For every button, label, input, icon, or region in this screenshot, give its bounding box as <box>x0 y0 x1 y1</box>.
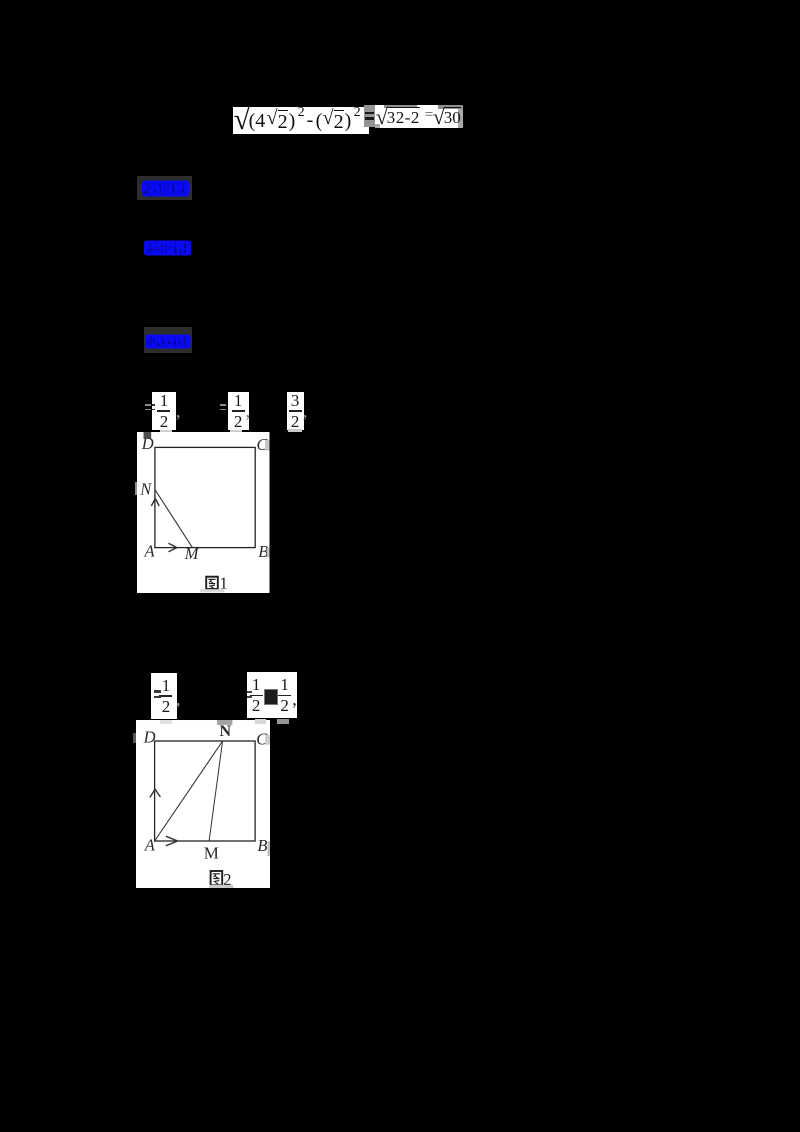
comma after second fraction <box>245 401 250 423</box>
dark comma at right edge <box>292 689 297 711</box>
up arrowhead on side AD <box>151 498 159 506</box>
grey remnant under row2 patch1 on panel <box>160 720 172 725</box>
svg-text:N: N <box>139 479 152 498</box>
grey remnant under row1 patch1 <box>160 430 172 433</box>
label 1 grey backing <box>137 176 193 201</box>
formula patch 1: sqrt((4*sqrt2)^2-(sqrt2)^2) <box>233 107 369 134</box>
svg-text:M: M <box>204 843 219 862</box>
fraction 1/2 (row2 second) <box>248 672 265 718</box>
segment A-N <box>154 741 222 841</box>
grey strip below caption <box>209 885 233 888</box>
caption glyph box (tu) <box>206 576 218 588</box>
blue label 2 <box>144 240 191 256</box>
segment N-M <box>155 489 193 547</box>
white block with two 1/2 fractions <box>247 672 297 718</box>
blue label 3 <box>145 334 191 349</box>
svg-text:N: N <box>219 723 231 740</box>
segment M-N <box>209 741 222 841</box>
dark equals inside patch left edge <box>154 690 162 692</box>
comma after first fraction <box>176 401 181 423</box>
fraction 1/2 (second) <box>228 392 249 430</box>
right arrowhead on side AB <box>166 836 178 846</box>
dark corner mark top-left <box>144 432 152 439</box>
right arrowhead on side AB <box>169 543 178 552</box>
figure 1 white panel <box>137 432 270 593</box>
small dark equals at left edge <box>247 691 252 693</box>
dark equals continuation on white <box>152 404 156 406</box>
caption glyph box (tu) <box>210 871 222 885</box>
grey equals before first fraction <box>145 404 151 406</box>
figure 2 white panel <box>136 720 271 888</box>
comma after row2 first fraction <box>176 689 181 711</box>
grey strip under caption <box>200 589 225 592</box>
label 3 grey backing <box>144 327 193 353</box>
grey tick left of N <box>135 482 137 496</box>
svg-text:A: A <box>144 541 156 560</box>
blue label 1 <box>142 180 189 197</box>
grey band above N <box>217 720 232 725</box>
up arrowhead on side AD <box>150 789 160 797</box>
grey nub right of B <box>267 841 270 856</box>
svg-text:D: D <box>142 727 155 746</box>
svg-text:M: M <box>184 544 200 563</box>
formula patch 2: sqrt(32-2) = sqrt(30) <box>375 105 464 128</box>
comma after third fraction <box>303 401 308 423</box>
square ABCD (fig 1) <box>155 447 255 547</box>
fraction 3/2 (third) <box>287 392 304 430</box>
grey equals before second fraction <box>220 404 226 406</box>
fraction 1/2 (row2 first) <box>151 673 176 719</box>
grey remnant under row1 patch3 <box>288 429 302 432</box>
dark equals blob between fractions <box>265 690 277 704</box>
svg-text:B: B <box>257 836 267 855</box>
fraction 1/2 (row2 third) <box>276 672 293 718</box>
square ABCD (fig 2) <box>154 741 254 841</box>
grey remnant under row2 patch2 on panel <box>255 719 266 725</box>
grey remnant under row1 patch2 <box>230 430 242 433</box>
dark tick left of D (fig 2) <box>133 733 136 743</box>
grey remnant right of panel (below row2 patch3) <box>277 719 289 725</box>
grey nub right of C <box>265 735 270 745</box>
grey nub right of C <box>265 440 270 451</box>
grey nub right of B <box>267 548 270 558</box>
svg-text:D: D <box>141 433 154 452</box>
equals sign on grey block <box>364 105 376 128</box>
fraction 1/2 (first) <box>152 392 177 430</box>
svg-text:A: A <box>144 835 156 854</box>
